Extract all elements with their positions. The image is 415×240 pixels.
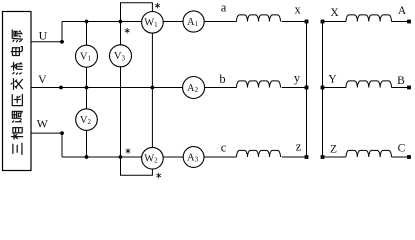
- svg-text:B: B: [397, 75, 405, 87]
- svg-text:W: W: [37, 117, 49, 131]
- wire: coil to A terminal: [392, 21, 410, 23]
- node y: [305, 86, 309, 90]
- three-phase regulated AC source box: [3, 12, 32, 171]
- svg-text:c: c: [221, 141, 227, 155]
- wire: V row from box: [31, 87, 237, 89]
- node Y: [321, 86, 325, 90]
- wire: Y row lead: [323, 87, 347, 89]
- wire: V3 branch: [120, 22, 122, 158]
- junction row2-V1V2: [85, 86, 89, 90]
- svg-text:C: C: [398, 143, 406, 155]
- voltmeter V1: [76, 45, 98, 67]
- junction row3-V3: [119, 155, 123, 159]
- wire: U stub from box: [31, 41, 62, 43]
- wire: W stub from box: [31, 132, 62, 134]
- wire: x-y-z star column: [306, 22, 308, 158]
- svg-text:z: z: [296, 140, 302, 154]
- node C: [407, 155, 411, 159]
- winding c-z: [237, 150, 281, 157]
- wire: W dropper: [61, 133, 63, 157]
- node A: [407, 20, 411, 24]
- junction U corner: [60, 40, 64, 44]
- polarity mark W2 current: [126, 148, 131, 153]
- wire: W1 voltage loop: [121, 3, 153, 22]
- ammeter A1: [183, 11, 204, 32]
- wattmeter W2: [142, 147, 164, 169]
- svg-text:y: y: [294, 71, 301, 85]
- ammeter A3: [183, 147, 204, 168]
- wire: Z row lead: [323, 156, 347, 158]
- winding Z-C: [346, 150, 392, 157]
- svg-text:Z: Z: [330, 144, 337, 156]
- winding Y-B: [346, 81, 392, 88]
- junction row3-V2: [85, 155, 89, 159]
- winding a-x: [237, 15, 281, 22]
- wire: row U/a main: [62, 21, 237, 23]
- polarity mark W1 current: [125, 28, 130, 33]
- svg-text:A: A: [398, 5, 407, 17]
- wire: W2 voltage loop: [121, 157, 153, 175]
- svg-text:V: V: [38, 72, 47, 86]
- wire: coil to B terminal: [392, 87, 410, 89]
- svg-text:X: X: [330, 7, 339, 19]
- svg-text:U: U: [39, 29, 48, 43]
- polarity mark W1 voltage: [155, 3, 160, 8]
- junction row1-V1: [85, 20, 89, 24]
- node B: [407, 86, 411, 90]
- svg-text:Y: Y: [328, 74, 337, 86]
- winding b-y: [237, 81, 281, 88]
- wire: X row lead: [323, 21, 347, 23]
- wire: row W/c main: [62, 156, 237, 158]
- winding X-A: [346, 15, 392, 22]
- rotated label text: 三相调压交流电源 (drawn as paths): [11, 30, 23, 154]
- voltmeter V2: [76, 109, 98, 131]
- junction row2-W column: [151, 86, 155, 90]
- wire: V1-V2 branch: [86, 22, 88, 158]
- junction row1-V3: [119, 20, 123, 24]
- svg-text:b: b: [219, 72, 225, 86]
- svg-text:x: x: [294, 2, 301, 16]
- wattmeter W1: [142, 11, 164, 33]
- wire: coil to C terminal: [392, 156, 410, 158]
- junction V terminal: [59, 86, 63, 90]
- node Z: [321, 155, 325, 159]
- wire: W1-W2 voltage column: [151, 22, 153, 158]
- svg-text:a: a: [221, 1, 227, 15]
- node z: [305, 155, 309, 159]
- wire: U riser: [61, 22, 63, 42]
- node x: [305, 20, 309, 24]
- junction W corner: [60, 131, 64, 135]
- wire: X-Y-Z star column: [322, 22, 324, 158]
- ammeter A2: [183, 77, 205, 99]
- polarity mark W2 voltage: [156, 173, 161, 178]
- voltmeter V3: [110, 45, 132, 67]
- node X: [321, 20, 325, 24]
